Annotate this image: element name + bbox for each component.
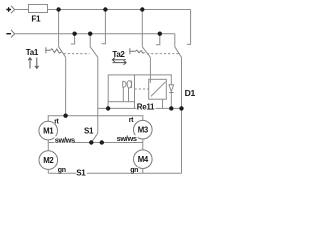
label gn M4	[130, 167, 138, 173]
switch S1 arm	[92, 133, 98, 142]
switch Ta2 pole2 arm	[175, 47, 182, 58]
wire coil lead 1	[122, 87, 124, 101]
wire coil box right lead to bottom wire	[134, 102, 136, 109]
label sw/ws M1	[54, 136, 74, 142]
wire gn bottom bus	[48, 172, 181, 174]
relay contact Re11 diagonal	[151, 82, 166, 97]
label rt M1	[54, 118, 59, 123]
wire Ta2 pole2 common down and gn return	[181, 57, 183, 173]
wire minus bus	[15, 33, 175, 35]
diode D1	[169, 85, 174, 92]
node plus terminal	[11, 6, 15, 14]
wire diode to bottom wire	[170, 93, 172, 109]
wire Ta1 pole2 NO lead from minus bus	[89, 34, 91, 47]
wire sw/ws bus	[48, 142, 143, 144]
wire coil lead 2	[128, 88, 130, 102]
label S1 upper	[83, 127, 94, 134]
wire M3 to M4	[142, 139, 144, 150]
switch Ta2 pole1 arm	[142, 47, 150, 58]
wire minus corner to Ta2 pole2	[174, 34, 176, 47]
motor M1	[39, 121, 58, 140]
wire Ta1 pole1 NC lead from minus bus	[71, 34, 75, 44]
svg-text:sw/ws: sw/ws	[117, 134, 137, 143]
relay Re1 coil box	[108, 75, 134, 102]
wire plus bus	[48, 9, 191, 11]
node Ta2p2 W1	[179, 106, 183, 110]
wire M1 to M2	[47, 140, 49, 151]
coil half 1	[123, 81, 126, 87]
svg-text:D1: D1	[185, 88, 196, 98]
wire W2 motor top wire	[48, 116, 143, 122]
wire Ta2 pole1 common into relay contact box	[149, 57, 151, 83]
fuse F1	[29, 5, 48, 13]
motor M2	[39, 151, 58, 170]
wire plus terminal to fuse	[15, 9, 29, 11]
label rt M3	[128, 117, 133, 122]
link Ta1 mechanical dashed	[64, 53, 90, 55]
svg-text:S1: S1	[76, 168, 86, 177]
svg-text:M4: M4	[138, 155, 149, 164]
svg-text:M3: M3	[138, 126, 149, 135]
wire relay top rail to diode	[135, 75, 172, 85]
coil half 2	[127, 81, 131, 88]
label Re11	[137, 104, 156, 111]
svg-text:Ta1: Ta1	[26, 48, 39, 57]
wire coil box left lead to bottom wire	[107, 102, 109, 109]
svg-text:Ta2: Ta2	[112, 50, 125, 59]
wire Ta1 pole2 common down	[97, 57, 99, 133]
switch Ta1 pole1 arm	[59, 47, 66, 58]
wire W1 bottom relay wire	[98, 107, 182, 109]
node plus-Ta2p1	[140, 7, 144, 11]
node minus-Ta1p1NC	[72, 32, 76, 36]
node S1 contact left	[89, 140, 93, 144]
link Ta2 mechanical dashed	[147, 53, 179, 55]
label plus	[6, 7, 11, 12]
node minus-Ta1p2	[88, 32, 92, 36]
svg-text:S1: S1	[84, 126, 94, 135]
svg-text:M2: M2	[43, 156, 54, 165]
motor M4	[134, 150, 153, 169]
node S1 contact right	[100, 140, 104, 144]
svg-text:gn: gn	[58, 167, 66, 174]
switch Ta1 pole2 arm	[90, 47, 98, 58]
arrows Ta2 direction	[112, 58, 126, 65]
svg-text:gn: gn	[130, 167, 138, 174]
wire Ta1 pole1 common down	[65, 57, 67, 115]
motor M3	[134, 120, 153, 139]
wire Ta1 pole2 NC lead from plus bus	[102, 10, 106, 44]
svg-text:Re11: Re11	[137, 103, 155, 112]
label S1 lower	[76, 169, 87, 176]
node plus-Ta1p1	[56, 7, 60, 11]
node M1-W2	[63, 114, 67, 118]
wire M2 gn lead	[47, 169, 49, 173]
wire plus right edge down to Ta2 pole2 NC contact	[187, 10, 191, 45]
actuator Ta1	[46, 47, 50, 53]
label gn M2	[57, 167, 65, 173]
label minus	[6, 33, 11, 35]
node minus terminal	[11, 30, 15, 38]
wire Ta2 pole1 NO lead from plus bus	[141, 10, 143, 47]
node coil lead W1	[106, 106, 110, 110]
wire Ta2 pole1 NC lead from minus bus	[156, 34, 160, 45]
wire Ta1 pole1 NO lead from plus bus	[58, 10, 60, 47]
svg-text:M1: M1	[43, 126, 54, 135]
actuator Ta2	[130, 48, 135, 54]
svg-text:F1: F1	[31, 15, 41, 24]
svg-text:sw/ws: sw/ws	[55, 135, 75, 144]
relay contact Re11 box	[149, 79, 167, 99]
label sw/ws M3	[116, 135, 138, 141]
link coil to contact dashed	[135, 88, 149, 90]
wire M4 gn lead	[142, 169, 144, 174]
junction dots	[56, 7, 183, 144]
node plus-Ta1p2NC	[103, 7, 107, 11]
node minus-Ta2p1NC	[158, 32, 162, 36]
node diode W1	[169, 106, 173, 110]
arrows Ta1 direction	[28, 58, 38, 69]
wire contact box bottom lead	[162, 99, 164, 108]
